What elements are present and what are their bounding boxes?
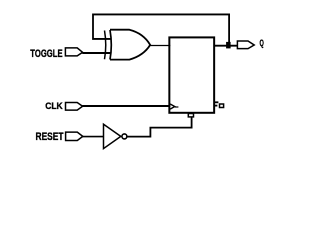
junction dot <box>226 42 231 49</box>
wire TOGGLE to XOR lower input <box>82 52 110 54</box>
svg-text:CLK: CLK <box>45 101 63 112</box>
input port TOGGLE <box>65 48 82 56</box>
wire RESET to inverter <box>83 136 104 138</box>
flip-flop CLR pin box <box>188 114 193 117</box>
output port Q <box>237 41 254 49</box>
input port RESET <box>66 132 83 140</box>
svg-text:Q: Q <box>260 38 264 49</box>
input port CLK <box>66 103 83 111</box>
inverter bubble <box>122 134 127 139</box>
wire inverter output to flip-flop CLR pin <box>127 117 192 137</box>
svg-text:TOGGLE: TOGGLE <box>30 48 62 60</box>
wire FF Q output to port Q <box>214 45 238 47</box>
flip-flop QN pin stubs <box>214 101 218 103</box>
wire XOR output to flip-flop D input <box>150 45 170 47</box>
flip-flop clock pin stub <box>175 106 179 108</box>
flip-flop QN pin square <box>220 104 224 108</box>
wire CLK to flip-flop clock input <box>82 105 170 107</box>
XOR gate <box>105 30 151 60</box>
D flip-flop body <box>169 37 214 112</box>
svg-text:RESET: RESET <box>36 131 64 143</box>
wire feedback loop (Q junction to XOR upper input) <box>93 14 229 42</box>
inverter triangle <box>104 124 121 148</box>
flip-flop clock triangle <box>170 104 175 109</box>
